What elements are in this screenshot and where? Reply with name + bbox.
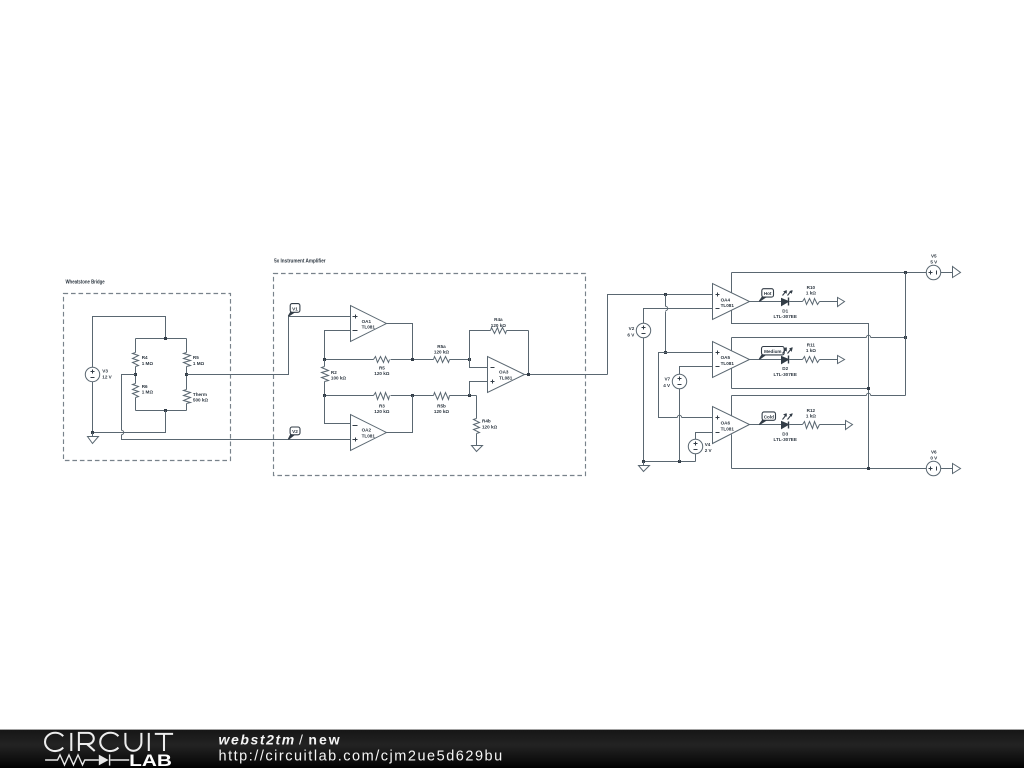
svg-text:R2: R2 bbox=[331, 370, 337, 375]
svg-text:OA1: OA1 bbox=[362, 319, 372, 324]
svg-text:Therm: Therm bbox=[193, 392, 207, 397]
svg-text:5x Instrument Amplifier: 5x Instrument Amplifier bbox=[274, 259, 326, 265]
svg-text:R12: R12 bbox=[807, 408, 816, 413]
svg-text:R10: R10 bbox=[807, 285, 816, 290]
svg-text:120 kΩ: 120 kΩ bbox=[434, 409, 449, 414]
svg-text:/: / bbox=[299, 732, 303, 748]
svg-text:1 kΩ: 1 kΩ bbox=[806, 414, 816, 419]
svg-text:V4: V4 bbox=[705, 442, 711, 447]
svg-text:R6: R6 bbox=[142, 384, 148, 389]
svg-text:6 V: 6 V bbox=[627, 332, 635, 337]
svg-text:R5: R5 bbox=[193, 355, 199, 360]
svg-text:V2: V2 bbox=[629, 326, 635, 331]
svg-text:V1: V1 bbox=[292, 306, 298, 311]
svg-text:OA5: OA5 bbox=[721, 355, 731, 360]
svg-text:1 MΩ: 1 MΩ bbox=[193, 361, 205, 366]
svg-text:1 MΩ: 1 MΩ bbox=[142, 361, 154, 366]
svg-text:TL081: TL081 bbox=[721, 361, 735, 366]
svg-text:120 kΩ: 120 kΩ bbox=[374, 371, 389, 376]
svg-text:V2: V2 bbox=[292, 429, 298, 434]
svg-text:Medium: Medium bbox=[764, 349, 781, 354]
svg-text:TL081: TL081 bbox=[499, 376, 513, 381]
svg-text:D2: D2 bbox=[782, 366, 788, 371]
svg-text:V5: V5 bbox=[931, 254, 937, 259]
svg-text:OA6: OA6 bbox=[721, 421, 731, 426]
svg-text:new: new bbox=[308, 732, 339, 748]
svg-text:TL081: TL081 bbox=[721, 303, 735, 308]
svg-text:D1: D1 bbox=[782, 308, 788, 313]
svg-text:R3: R3 bbox=[379, 403, 385, 408]
svg-text:LAB: LAB bbox=[129, 751, 172, 768]
svg-text:OA2: OA2 bbox=[362, 428, 372, 433]
svg-text:120 kΩ: 120 kΩ bbox=[491, 323, 506, 328]
svg-text:OA4: OA4 bbox=[721, 297, 731, 302]
svg-text:TL081: TL081 bbox=[362, 325, 376, 330]
svg-text:500 kΩ: 500 kΩ bbox=[193, 397, 208, 402]
svg-text:TL081: TL081 bbox=[362, 433, 376, 438]
svg-text:V6: V6 bbox=[931, 450, 937, 455]
svg-text:120 kΩ: 120 kΩ bbox=[482, 425, 497, 430]
svg-text:5 V: 5 V bbox=[930, 260, 938, 265]
svg-text:1 kΩ: 1 kΩ bbox=[806, 290, 816, 295]
svg-text:LTL-307EE: LTL-307EE bbox=[773, 437, 796, 442]
svg-text:LTL-307EE: LTL-307EE bbox=[773, 372, 796, 377]
svg-text:V3: V3 bbox=[102, 368, 108, 373]
svg-text:Cold: Cold bbox=[764, 414, 774, 419]
svg-text:R4b: R4b bbox=[482, 419, 491, 424]
svg-text:100 kΩ: 100 kΩ bbox=[331, 376, 346, 381]
svg-text:R5b: R5b bbox=[437, 403, 446, 408]
svg-text:1 kΩ: 1 kΩ bbox=[806, 348, 816, 353]
svg-text:12 V: 12 V bbox=[102, 374, 112, 379]
svg-text:R4a: R4a bbox=[494, 317, 503, 322]
svg-text:Hot: Hot bbox=[764, 291, 772, 296]
svg-text:V7: V7 bbox=[664, 377, 670, 382]
svg-text:0 V: 0 V bbox=[930, 456, 938, 461]
svg-text:R11: R11 bbox=[807, 343, 816, 348]
svg-text:4 V: 4 V bbox=[663, 383, 671, 388]
svg-text:120 kΩ: 120 kΩ bbox=[434, 350, 449, 355]
svg-text:Wheatstone Bridge: Wheatstone Bridge bbox=[66, 280, 105, 286]
svg-text:R5: R5 bbox=[379, 365, 385, 370]
svg-text:2 V: 2 V bbox=[705, 448, 713, 453]
svg-text:120 kΩ: 120 kΩ bbox=[374, 409, 389, 414]
svg-text:OA3: OA3 bbox=[499, 370, 509, 375]
svg-text:TL081: TL081 bbox=[721, 426, 735, 431]
svg-text:R5a: R5a bbox=[437, 344, 446, 349]
svg-text:R4: R4 bbox=[142, 355, 148, 360]
svg-text:D3: D3 bbox=[782, 432, 788, 437]
svg-text:1 MΩ: 1 MΩ bbox=[142, 390, 154, 395]
svg-text:LTL-307EE: LTL-307EE bbox=[773, 314, 796, 319]
